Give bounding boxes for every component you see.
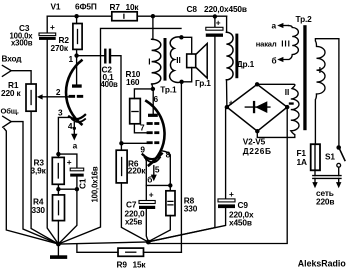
svg-text:а: а <box>272 20 277 30</box>
choke Dr1 <box>226 16 254 107</box>
svg-text:II: II <box>176 55 180 65</box>
transformer Tp2 winding II <box>257 84 299 137</box>
node junction R2/top rail <box>74 14 78 18</box>
resistor R6 <box>116 143 148 242</box>
svg-text:1А: 1А <box>297 157 307 167</box>
tube V1 heater pin 5 <box>145 157 160 184</box>
node junction anode/R2/C2 <box>74 53 78 57</box>
node junction anode pentode <box>151 87 155 91</box>
svg-text:9: 9 <box>140 144 145 154</box>
switch S1 <box>325 145 345 175</box>
tube V1 pentode envelope <box>146 101 164 165</box>
svg-text:III: III <box>281 39 291 49</box>
logo AleksRadio <box>298 259 347 269</box>
svg-text:накал: накал <box>256 40 277 49</box>
wire shield to ground <box>4 128 58 244</box>
tube V1 heater pin 4 <box>68 119 85 151</box>
wire cathode to C7/R8 <box>144 155 170 185</box>
svg-text:+: + <box>67 157 72 167</box>
wire bridge minus to ground rail <box>148 107 287 243</box>
svg-text:+: + <box>149 190 154 200</box>
svg-text:+: + <box>216 18 221 28</box>
node junction cathode/R8 <box>168 183 172 187</box>
svg-text:100,0х16в: 100,0х16в <box>91 166 100 202</box>
svg-text:Тр.1: Тр.1 <box>160 84 177 94</box>
svg-text:х450в: х450в <box>229 217 252 227</box>
svg-text:3: 3 <box>58 107 63 117</box>
tube V1 pentode anode pin 6 <box>148 89 159 117</box>
svg-text:б: б <box>147 174 152 184</box>
resistor R4 <box>32 189 65 244</box>
node junction C8 rail <box>213 14 217 18</box>
resistor R7 <box>110 2 140 21</box>
svg-text:х25в: х25в <box>125 218 143 227</box>
svg-text:I: I <box>148 56 150 66</box>
node junction cathode/R3/C1 <box>56 152 60 156</box>
node junction speaker top <box>179 35 183 39</box>
svg-text:7: 7 <box>140 122 145 132</box>
svg-text:220к: 220к <box>128 166 146 176</box>
resistor R9 <box>77 244 181 270</box>
wire R3 to C1 bottom <box>58 188 77 190</box>
svg-text:Вход: Вход <box>2 53 23 63</box>
svg-text:+: + <box>229 189 234 199</box>
wire top supply rail <box>47 15 226 17</box>
svg-text:330: 330 <box>184 204 198 214</box>
svg-text:160: 160 <box>126 77 140 87</box>
tube V1 triode envelope <box>66 61 81 125</box>
svg-text:а: а <box>73 141 78 151</box>
node junction C1/R9 <box>75 187 79 191</box>
capacitor C2 <box>77 49 121 144</box>
capacitor C8 <box>148 4 247 242</box>
tube V1 label <box>51 2 97 12</box>
wire screen rail from speaker node to ground <box>58 28 181 244</box>
svg-text:+: + <box>229 97 234 107</box>
svg-text:С1: С1 <box>78 178 88 189</box>
wire feedback R9 to speaker <box>180 82 182 253</box>
connector mains сеть 220в <box>312 176 341 207</box>
svg-text:6: 6 <box>154 94 159 104</box>
svg-text:220в: 220в <box>316 196 334 206</box>
transformer Tp1 label <box>160 84 177 94</box>
rectifier bridge V2-V5 <box>225 82 294 156</box>
svg-text:220,0х450в: 220,0х450в <box>204 4 247 14</box>
wire C1 branch to ground <box>58 189 77 244</box>
resistor R2 <box>51 16 83 55</box>
svg-text:Тр.2: Тр.2 <box>296 14 313 24</box>
svg-text:х300в: х300в <box>11 39 33 48</box>
svg-text:Д226Б: Д226Б <box>243 146 272 156</box>
tube V1 triode anode pin 1 <box>69 54 82 88</box>
svg-text:S1: S1 <box>325 152 335 162</box>
svg-text:6Ф5П: 6Ф5П <box>75 2 97 12</box>
wire ground rail <box>58 242 148 244</box>
svg-text:+: + <box>50 22 55 32</box>
svg-text:б: б <box>272 56 277 66</box>
svg-text:15к: 15к <box>133 260 147 270</box>
transformer Tp2 core <box>303 25 306 130</box>
connector common Общ. <box>1 106 19 127</box>
svg-text:Общ.: Общ. <box>1 106 19 115</box>
tube V1 triode grid pin 2 <box>56 87 83 98</box>
tube V1 triode cathode pin 3 <box>58 107 85 154</box>
svg-text:V1: V1 <box>51 2 61 12</box>
node junction ground left <box>56 242 61 247</box>
svg-text:1: 1 <box>69 54 74 64</box>
svg-text:270к: 270к <box>51 43 69 53</box>
potentiometer R1 <box>1 80 69 244</box>
svg-text:10к: 10к <box>126 2 140 12</box>
svg-text:AleksRadio: AleksRadio <box>298 259 347 269</box>
transformer Tp1 core <box>164 38 167 81</box>
svg-text:R7: R7 <box>110 2 121 12</box>
svg-text:220 к: 220 к <box>1 88 22 98</box>
svg-text:4: 4 <box>68 121 73 131</box>
transformer Tp2 winding I <box>315 39 339 145</box>
resistor R10 <box>126 69 153 133</box>
svg-text:II: II <box>285 87 289 97</box>
svg-text:330: 330 <box>32 205 46 215</box>
svg-text:8: 8 <box>166 149 171 159</box>
capacitor C9 <box>148 107 254 242</box>
speaker Гр.1 <box>181 37 211 88</box>
node junction ground right <box>146 240 151 245</box>
resistor R3 <box>31 156 65 189</box>
tube V1 pentode grid pin 7 screen <box>140 122 159 134</box>
wire common to ground <box>11 122 58 244</box>
capacitor C3 <box>10 16 59 244</box>
svg-text:Др.1: Др.1 <box>237 59 255 69</box>
tube V1 pentode grid pin 9 control <box>121 141 159 154</box>
svg-text:400в: 400в <box>101 80 119 89</box>
transformer Tp1 winding II <box>170 37 182 83</box>
resistor R8 <box>148 185 197 241</box>
connector input Вход <box>2 53 23 76</box>
ground <box>50 244 67 259</box>
capacitor C1 <box>58 154 99 202</box>
svg-text:2: 2 <box>56 87 61 97</box>
svg-text:5: 5 <box>155 164 160 174</box>
transformer Tp1 winding I <box>148 16 161 89</box>
svg-text:С8: С8 <box>187 4 198 14</box>
node junction speaker bottom <box>179 80 183 84</box>
tube V1 pentode grid suppressor <box>147 122 160 125</box>
svg-text:Гр.1: Гр.1 <box>195 78 211 88</box>
node junction R7/Tp1 rail <box>151 14 155 18</box>
transformer Tp2 winding III накал <box>256 20 299 65</box>
svg-text:R9: R9 <box>117 260 128 270</box>
wire input to R1 <box>11 71 31 84</box>
node junction R3/R4 <box>56 187 60 191</box>
svg-text:I: I <box>319 65 321 75</box>
svg-text:3,9к: 3,9к <box>31 165 47 175</box>
node junction C2/R6/grid <box>119 141 123 145</box>
fuse F1 <box>297 144 321 175</box>
transformer Tp2 label <box>296 14 313 24</box>
capacitor C7 <box>125 185 156 241</box>
tube V1 pentode cathode pin 8 <box>143 149 171 185</box>
